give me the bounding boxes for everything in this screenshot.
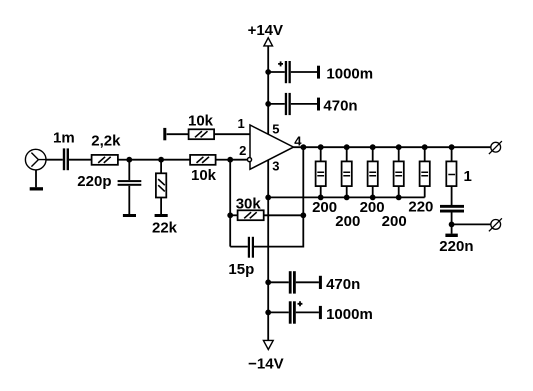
connector J2 (output hot): [489, 141, 502, 154]
wire node I to R5: [230, 214, 237, 216]
resistor R2 22k: [152, 173, 178, 236]
capacitor C7 15p: [228, 237, 254, 278]
node R9 bottom: [396, 195, 402, 201]
svg-text:1000m: 1000m: [326, 66, 373, 83]
wire node J down to C7: [254, 215, 303, 246]
wire J1 to C1: [46, 159, 63, 161]
ground (under 220p): [123, 214, 136, 217]
resistor R3 10k (bottom): [190, 155, 217, 184]
resistor R7 200: [335, 147, 360, 230]
wire node C down (feedback): [229, 160, 231, 247]
node R9 top: [396, 144, 402, 150]
power -14V: [248, 340, 283, 372]
resistor R8 200: [360, 147, 385, 216]
node R8 bottom: [370, 195, 376, 201]
wire node B down: [160, 160, 162, 174]
node R7 top: [344, 144, 350, 150]
wire +14V rail to pin 5: [267, 46, 269, 134]
svg-text:10k: 10k: [188, 113, 214, 130]
wire J1 stem: [35, 170, 37, 187]
node R10 top: [422, 144, 428, 150]
svg-text:220n: 220n: [439, 238, 473, 255]
wire output line: [294, 146, 491, 148]
op-amp U1: [247, 125, 293, 169]
wire R4 to op-amp pin 1: [214, 133, 250, 135]
wire C1 to R1: [69, 159, 92, 161]
node R8 top: [370, 144, 376, 150]
svg-text:470n: 470n: [326, 276, 360, 293]
resistor R1 2,2k: [91, 133, 121, 165]
connector J3 (output return): [489, 218, 502, 231]
capacitor C2 220p: [77, 173, 141, 190]
svg-text:−14V: −14V: [248, 356, 283, 373]
svg-text:470n: 470n: [323, 97, 357, 114]
capacitor C5 470n (bottom): [268, 271, 360, 293]
node E (+rail / 470n): [265, 101, 271, 107]
node A: [126, 157, 132, 163]
svg-text:1m: 1m: [53, 129, 75, 146]
node B: [158, 157, 164, 163]
node H (-rail / 1000m): [265, 310, 271, 316]
resistor R4 10k (top): [188, 113, 214, 140]
svg-text:15p: 15p: [228, 261, 254, 278]
capacitor C1 1m: [53, 129, 75, 170]
wire node B to R3: [161, 159, 190, 161]
capacitor C4 470n (top): [268, 93, 357, 115]
svg-text:1: 1: [237, 116, 244, 131]
svg-text:200: 200: [382, 213, 407, 230]
capacitor C8 220n: [439, 205, 473, 255]
resistor R9 200: [382, 147, 407, 230]
node C (inverting input node): [227, 157, 233, 163]
svg-text:200: 200: [335, 213, 360, 230]
terminal (open input of R4): [163, 128, 166, 140]
node R7 bottom: [344, 195, 350, 201]
node R11 top: [449, 144, 455, 150]
wire R3 to node C: [216, 159, 231, 161]
svg-text:220p: 220p: [77, 173, 111, 190]
svg-text:2: 2: [239, 143, 246, 158]
node K (op-amp output pin 4): [301, 144, 307, 150]
node I (30k left): [227, 212, 233, 218]
svg-text:10k: 10k: [191, 167, 217, 184]
resistor R11 1: [446, 147, 472, 205]
node J (30k right / feedback): [300, 212, 306, 218]
svg-text:+14V: +14V: [248, 22, 283, 39]
connector J1 (audio input): [25, 149, 46, 170]
wire node A to node B: [129, 159, 161, 161]
capacitor C6 1000m (bottom, polarized): [268, 301, 373, 323]
svg-text:22k: 22k: [152, 220, 178, 237]
wire node C to op-amp pin 2: [230, 159, 247, 161]
svg-text:1: 1: [464, 168, 472, 185]
node G (-rail / 470n): [265, 279, 271, 285]
wire terminal to R4: [167, 133, 189, 135]
wire load return: [268, 196, 425, 198]
ground (under 22k): [155, 214, 168, 217]
svg-text:2,2k: 2,2k: [91, 133, 121, 150]
node F (pin3 / load return): [265, 195, 271, 201]
wire C7 to node C leg: [230, 246, 248, 248]
node R6 top: [318, 144, 324, 150]
wire R2 to ground: [160, 198, 162, 215]
node D (+rail / 1000m): [265, 69, 271, 75]
resistor R6 200: [312, 147, 337, 216]
svg-text:3: 3: [272, 159, 279, 174]
wire node A down: [128, 160, 130, 180]
resistor R10 220: [408, 147, 433, 215]
wire R5 to node J: [264, 214, 304, 216]
ground (input): [30, 187, 43, 190]
node R6 bottom: [318, 195, 324, 201]
svg-text:200: 200: [312, 199, 337, 216]
node L (output ground node): [449, 222, 455, 228]
svg-text:30k: 30k: [236, 195, 262, 212]
svg-text:220: 220: [408, 199, 433, 216]
wire C8 to node L: [451, 213, 453, 225]
wire node J up to output node: [302, 147, 304, 215]
svg-text:5: 5: [272, 121, 279, 136]
wire C2 to ground: [128, 186, 130, 214]
ground (output): [445, 234, 457, 237]
wire op-amp pin 3 / negative rail: [267, 160, 269, 340]
wire node L to ground: [451, 224, 453, 233]
wire R1 to node A: [118, 159, 129, 161]
wire node L to J2: [452, 223, 491, 225]
svg-text:1000m: 1000m: [326, 306, 373, 323]
capacitor C3 1000m (top, polarized): [268, 61, 373, 83]
power +14V: [248, 22, 283, 46]
resistor R5 30k (feedback): [236, 195, 264, 220]
